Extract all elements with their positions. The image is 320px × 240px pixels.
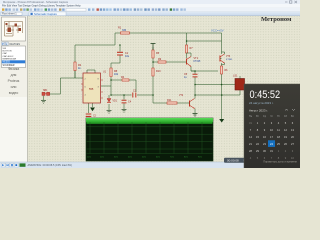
- svg-text:10m: 10m: [87, 157, 91, 159]
- power terminal +5V: [151, 44, 156, 51]
- svg-text:VCC=+5V: VCC=+5V: [211, 29, 224, 33]
- window buttons: [285, 1, 297, 3]
- resistor R5: [152, 50, 160, 58]
- svg-text:LS1: LS1: [233, 75, 238, 78]
- wire speaker return: [195, 90, 240, 95]
- wire speaker feed: [195, 84, 235, 86]
- wire VT3 column: [221, 33, 223, 119]
- transistor VT1: [185, 53, 201, 71]
- wire 555 top loop: [87, 70, 95, 73]
- transistor VT3: [220, 52, 233, 65]
- ground pin1 arrow: [90, 108, 95, 112]
- svg-text:VT1: VT1: [194, 57, 199, 60]
- capacitor C5: [184, 73, 198, 79]
- sim time badge: [224, 158, 248, 163]
- oscilloscope graph window: [86, 118, 213, 161]
- svg-text:CAP-ELEC: CAP-ELEC: [3, 55, 14, 58]
- svg-text:Физика: Физика: [8, 67, 19, 71]
- speaker LS1: [233, 75, 245, 91]
- svg-text:Параметры даты и времени: Параметры даты и времени: [263, 160, 297, 164]
- svg-text:00:00:08: 00:00:08: [227, 159, 239, 163]
- canvas with grid: [28, 16, 301, 162]
- wire 555 pin3 out: [101, 85, 111, 87]
- wire VT3 emitter: [191, 70, 218, 72]
- diode VD1: [107, 99, 118, 103]
- wire button net: [44, 78, 61, 100]
- svg-text:10u: 10u: [125, 55, 130, 58]
- wire VT1 base net: [153, 61, 185, 63]
- ground probe: [219, 119, 224, 123]
- ground button: [41, 100, 46, 103]
- device listbox: [2, 46, 26, 68]
- wire gnd pin column: [92, 103, 94, 107]
- ground VT2: [193, 114, 198, 117]
- graph frame: [86, 118, 213, 161]
- svg-text:80m: 80m: [184, 157, 188, 159]
- ground VD1: [107, 110, 112, 113]
- svg-text:KT361: KT361: [226, 59, 233, 61]
- svg-text:R11: R11: [167, 99, 172, 102]
- capacitor C4: [122, 100, 132, 103]
- button SB1: [42, 90, 50, 95]
- svg-text:60m: 60m: [156, 157, 160, 159]
- trace: [87, 122, 213, 124]
- resistor R9: [158, 58, 166, 63]
- junction dots: [110, 40, 222, 95]
- resistor R11: [167, 99, 177, 104]
- wire R8 column: [110, 77, 112, 95]
- tab bar: [0, 12, 300, 16]
- svg-text:для: для: [11, 73, 17, 77]
- toolbar: [0, 7, 300, 11]
- svg-text:R10: R10: [156, 70, 161, 73]
- svg-text:Август 2023 г.: Август 2023 г.: [249, 109, 268, 113]
- svg-text:SB1: SB1: [43, 90, 48, 92]
- wire divider column: [152, 47, 154, 103]
- svg-text:P: P: [2, 42, 4, 46]
- title bar: [0, 0, 300, 4]
- svg-text:30m: 30m: [114, 157, 118, 159]
- resistor R4: [121, 76, 129, 81]
- wire R4 loop: [111, 80, 136, 92]
- svg-text:Proteus: Proteus: [8, 79, 20, 83]
- svg-text:Метроном - Proteus 8 Professio: Метроном - Proteus 8 Professional - Sche…: [3, 0, 69, 4]
- svg-text:Сб: Сб: [284, 115, 288, 118]
- wire VT2 emitter: [194, 109, 196, 114]
- clock calendar flyout: [244, 84, 300, 168]
- dates: [249, 121, 294, 160]
- wire VT1 emitter: [191, 71, 195, 74]
- selected day 24: [268, 140, 275, 147]
- wire C4 branch: [123, 95, 125, 109]
- svg-text:24 августа 2023 г.: 24 августа 2023 г.: [249, 101, 274, 105]
- wire VCC top rail: [115, 32, 222, 34]
- svg-text:90m: 90m: [198, 157, 202, 159]
- transistor VT2: [179, 95, 195, 109]
- wire rail corner: [114, 33, 116, 45]
- wire left rail: [75, 44, 115, 46]
- resistor R1: [118, 27, 130, 35]
- ground C4: [122, 109, 127, 112]
- resistor R10: [152, 68, 161, 76]
- svg-text:ANIMATING: 00:00:08.5 (CPU loa: ANIMATING: 00:00:08.5 (CPU load 3%): [28, 164, 72, 167]
- svg-text:0:45:52: 0:45:52: [250, 89, 281, 101]
- svg-text:Метроном: Метроном: [261, 16, 292, 23]
- wire C5 to VT2: [194, 77, 196, 99]
- 555 timer U1: [81, 71, 107, 104]
- preview window: [2, 17, 26, 41]
- wire bias branch: [187, 40, 222, 42]
- wire C2 column: [88, 103, 90, 113]
- wire C1 drop: [111, 45, 120, 68]
- svg-text:VT3: VT3: [226, 56, 231, 58]
- capacitor C2: [86, 114, 97, 118]
- status bar: [0, 162, 300, 168]
- weekdays: [249, 115, 295, 118]
- grid lines: [87, 122, 213, 153]
- svg-text:CAP: CAP: [3, 52, 8, 55]
- svg-text:DEVICES: DEVICES: [10, 43, 21, 46]
- menu bar: [0, 4, 300, 7]
- graph header: [86, 118, 213, 122]
- wire R2 branch: [74, 45, 76, 78]
- resistor R7: [185, 45, 193, 53]
- wire VT1 chain: [186, 33, 188, 58]
- selector buttons: [2, 42, 5, 45]
- svg-text:Root sheet 1: Root sheet 1: [2, 12, 17, 16]
- axis labels: [87, 157, 202, 159]
- svg-text:видео: видео: [9, 91, 19, 95]
- svg-text:70m: 70m: [170, 157, 174, 159]
- wire discharge net: [111, 94, 153, 96]
- svg-text:File Edit View Tool Design Gra: File Edit View Tool Design Graph Debug L…: [2, 5, 81, 8]
- resistor R6: [220, 66, 228, 74]
- resistor R2: [74, 62, 82, 71]
- wire 555 pin2: [60, 70, 83, 78]
- capacitor C1: [117, 52, 130, 58]
- svg-text:40m: 40m: [128, 157, 132, 159]
- capacitor C3: [133, 90, 137, 98]
- svg-text:или: или: [11, 85, 17, 89]
- svg-text:50m: 50m: [142, 157, 146, 159]
- svg-text:KT315: KT315: [194, 61, 201, 63]
- svg-text:20m: 20m: [100, 157, 104, 159]
- svg-text:VT2: VT2: [179, 95, 184, 97]
- resistor R8: [110, 68, 119, 77]
- left panel: [0, 16, 28, 162]
- watermark text: [8, 67, 20, 95]
- svg-text:Schematic Capture: Schematic Capture: [34, 12, 57, 16]
- svg-text:330: 330: [122, 29, 127, 32]
- wire VT2 base net: [153, 102, 188, 104]
- svg-text:VD1: VD1: [113, 101, 118, 103]
- wire diode column: [108, 95, 110, 110]
- svg-text:555: 555: [89, 87, 94, 91]
